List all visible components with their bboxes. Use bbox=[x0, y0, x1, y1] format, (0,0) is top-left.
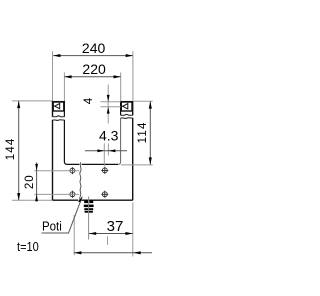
optics triangle right bbox=[121, 104, 128, 109]
dimension 4 (optical axis offset from housing top) bbox=[83, 85, 121, 124]
wire: right arm top edge bbox=[120, 101, 133, 103]
dimension 37 (poti to right edge) bbox=[89, 203, 133, 257]
dimension 20 (mounting hole spacing) bbox=[24, 163, 79, 202]
svg-text:4: 4 bbox=[83, 97, 95, 104]
dimension 114 bbox=[121, 101, 153, 165]
wire: left arm outer edge / body left edge bbox=[52, 102, 54, 201]
wire: body bottom edge (gap at wavy break) bbox=[53, 199, 133, 201]
dimension 220 bbox=[64, 61, 120, 101]
wire: right arm inner edge with slot corner arc bbox=[118, 118, 121, 164]
svg-text:4.3: 4.3 bbox=[99, 128, 119, 144]
label Poti with leader bbox=[42, 197, 83, 234]
wire: right arm break line lower bbox=[121, 117, 133, 120]
wire: poti screw axis centerline bbox=[88, 197, 90, 240]
wire: right arm break line upper (arc bump) bbox=[121, 113, 133, 116]
dimension 144 bbox=[5, 101, 52, 200]
mounting hole top-right bbox=[101, 167, 108, 174]
wire: slot bottom edge (gap at wavy break) bbox=[67, 163, 118, 165]
potentiometer screw bbox=[84, 201, 94, 213]
wire: left arm inner edge with slot corner arc bbox=[64, 102, 67, 165]
wire: left arm top edge bbox=[52, 101, 65, 103]
wire: right arm outer edge / body right edge bbox=[132, 102, 134, 201]
svg-text:144: 144 bbox=[5, 138, 17, 161]
dimension 240 bbox=[53, 40, 133, 101]
mounting hole bottom-left bbox=[69, 191, 76, 198]
svg-text:114: 114 bbox=[137, 121, 149, 143]
svg-text:t=10: t=10 bbox=[17, 239, 39, 254]
wire: left arm break line lower bbox=[53, 119, 65, 122]
dimension 4.3 (optical axis to mounting hole axis) bbox=[85, 128, 127, 167]
svg-text:37: 37 bbox=[107, 218, 124, 235]
wire: wavy body break line bbox=[80, 162, 81, 200]
optics box left (emitter housing) bbox=[53, 102, 64, 111]
mounting hole bottom-right bbox=[101, 191, 108, 198]
optics box right (receiver housing) bbox=[121, 102, 132, 111]
optics triangle left bbox=[53, 104, 60, 109]
svg-text:20: 20 bbox=[24, 174, 36, 189]
svg-text:240: 240 bbox=[82, 40, 106, 56]
svg-text:220: 220 bbox=[82, 61, 106, 77]
svg-text:Poti: Poti bbox=[42, 218, 62, 233]
mounting hole top-left bbox=[69, 167, 76, 174]
dimension chain bottom (hole axis to right edge) bbox=[74, 215, 152, 255]
wire: left arm break line upper (arc bump) bbox=[53, 115, 65, 118]
